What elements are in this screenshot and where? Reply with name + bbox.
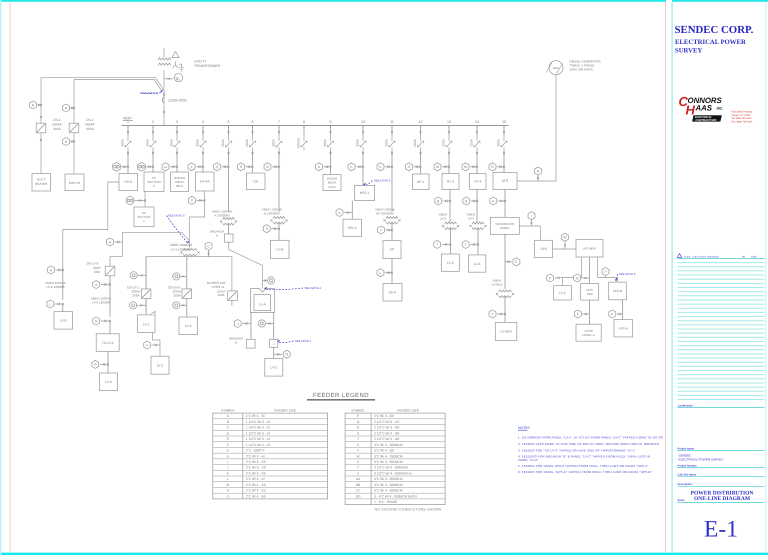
feeder symbol I — [528, 212, 535, 220]
svg-text:ATS: ATS — [502, 179, 509, 183]
transformer XMER KP — [386, 217, 398, 219]
feeder symbol Q position 5 — [214, 163, 221, 171]
page bottom cyan strip — [0, 553, 768, 555]
svg-text:S: S — [357, 431, 359, 435]
svg-text:2: 2 — [152, 120, 154, 124]
svg-text:NO GROUND CONDUCTORS SHOWN: NO GROUND CONDUCTORS SHOWN — [375, 508, 442, 512]
svg-text:60A: 60A — [94, 270, 101, 274]
svg-text:15: 15 — [502, 120, 506, 124]
svg-text:A: A — [216, 234, 218, 238]
svg-text:400A: 400A — [86, 127, 95, 131]
feeder symbol B on LV-3 wire — [435, 197, 442, 205]
breaker 200A position 11 — [391, 126, 393, 135]
svg-text:J: J — [237, 322, 239, 326]
svg-text:1 - 4"C - SPARE: 1 - 4"C - SPARE — [374, 500, 397, 504]
feeder symbol Z position 4 — [188, 163, 195, 171]
svg-text:400A: 400A — [121, 138, 125, 146]
svg-text:SEE NOTE 2: SEE NOTE 2 — [142, 91, 159, 95]
svg-text:PANEL: PANEL — [500, 226, 510, 230]
panel LV-9 — [100, 373, 118, 391]
svg-text:13: 13 — [447, 120, 451, 124]
svg-text:Z: Z — [190, 165, 192, 169]
feeder symbol L on LV-E wire — [47, 300, 54, 308]
disconnect DS-LV-1 — [141, 289, 151, 299]
feeder symbol R on generator wire — [535, 167, 542, 175]
svg-text:ELECTRICAL POWER SURVEY: ELECTRICAL POWER SURVEY — [679, 458, 724, 462]
wire position 10 drop — [362, 151, 364, 186]
svg-text:2"C W/ 4 - 2/0: 2"C W/ 4 - 2/0 — [246, 489, 266, 493]
svg-text:SPACE: SPACE — [297, 138, 301, 149]
breaker 300A position 9 — [330, 126, 332, 135]
svg-text:2"C W/ 3 - #6: 2"C W/ 3 - #6 — [246, 454, 265, 458]
svg-text:Z: Z — [357, 471, 359, 475]
svg-text:4"C W/ 3 - 500MCM: 4"C W/ 3 - 500MCM — [374, 483, 403, 487]
svg-text:3"C W/ 4 - 350MCM: 3"C W/ 4 - 350MCM — [374, 460, 403, 464]
svg-text:1. (X) 500MCM FROM PANEL "LV-4: 1. (X) 500MCM FROM PANEL "LV-4", AT JCT … — [518, 435, 663, 439]
svg-text:Scale:: Scale: — [678, 499, 686, 502]
svg-text:DS-1: DS-1 — [53, 118, 61, 122]
transformer XMER LV-4 — [472, 222, 484, 224]
svg-text:DD: DD — [356, 494, 361, 498]
wire feeder C stub — [208, 250, 210, 257]
svg-text:GEN: GEN — [553, 66, 559, 70]
feeder symbol S position 6 — [238, 163, 245, 171]
svg-text:HP-1: HP-1 — [417, 180, 425, 184]
svg-text:G: G — [94, 363, 97, 367]
svg-text:3"C W/ 4 - 3/0: 3"C W/ 4 - 3/0 — [374, 449, 394, 453]
svg-text:NOTES: NOTES — [518, 426, 530, 430]
feeder symbol B on LV-4 wire — [463, 197, 470, 205]
svg-text:T: T — [465, 243, 467, 247]
wire transformer to MCB — [163, 70, 165, 126]
svg-text:B: B — [227, 420, 229, 424]
svg-text:INC.: INC. — [717, 107, 724, 111]
svg-text:HP2-1: HP2-1 — [360, 191, 370, 195]
svg-text:3"C W/ 4 - 250MCM: 3"C W/ 4 - 250MCM — [374, 454, 403, 458]
utility meter — [174, 73, 182, 81]
feeder symbol GG position 1 — [113, 162, 121, 171]
disconnect DS-REFLOW OVEN 1 — [228, 291, 238, 301]
svg-text:200A: 200A — [385, 138, 389, 146]
wire position 7 drop — [278, 151, 280, 213]
svg-text:KP 120/208V: KP 120/208V — [376, 212, 394, 216]
disconnect switch DS-2 — [69, 123, 79, 133]
wire J to LV-C — [273, 347, 275, 358]
feeder symbol F on LV-X wire — [547, 274, 554, 282]
feeder symbol W position 13 — [434, 163, 441, 171]
svg-text:SEE NOTE 1: SEE NOTE 1 — [295, 339, 312, 343]
breaker B box — [246, 339, 255, 348]
svg-text:CONTRACTORS: CONTRACTORS — [696, 119, 717, 122]
svg-text:FEEDER LEGEND: FEEDER LEGEND — [313, 392, 369, 399]
svg-text:2"C W/ 3 - 2/0: 2"C W/ 3 - 2/0 — [246, 471, 266, 475]
svg-text:7: 7 — [278, 120, 280, 124]
feeder symbol F on panel A wire — [574, 310, 581, 318]
svg-text:6. FEEDER FOR PANEL "UPS-A" TA: 6. FEEDER FOR PANEL "UPS-A" TAPPED FROM … — [518, 470, 652, 474]
svg-text:FEEDER SIZE: FEEDER SIZE — [397, 409, 419, 413]
svg-text:Q: Q — [216, 165, 219, 169]
svg-text:O: O — [191, 199, 194, 203]
svg-text:DS-2: DS-2 — [86, 118, 94, 122]
svg-text:4"C W/ 4 - 500MCM: 4"C W/ 4 - 500MCM — [374, 489, 403, 493]
svg-text:ELECTRICAL POWER: ELECTRICAL POWER — [675, 39, 746, 46]
panel LV-A with feed-thru notch — [251, 289, 275, 313]
svg-text:W: W — [357, 454, 360, 458]
svg-text:Tel: (969) 545-4444: Tel: (969) 545-4444 — [732, 117, 753, 120]
svg-text:LV-X: LV-X — [559, 291, 567, 295]
svg-text:1 1/4"C W/ 4 - #2: 1 1/4"C W/ 4 - #2 — [246, 426, 271, 430]
svg-text:LV-1: LV-1 — [143, 323, 150, 327]
svg-text:2 1/2"C W/ 4 - 3/0: 2 1/2"C W/ 4 - 3/0 — [374, 431, 399, 435]
svg-text:SEE NOTE 6: SEE NOTE 6 — [619, 272, 636, 276]
panel HV-D — [119, 174, 138, 191]
disconnect switch DS-1 — [36, 123, 46, 133]
feeder symbol O below HV-4A — [189, 196, 196, 204]
svg-text:ONE-LINE DIAGRAM: ONE-LINE DIAGRAM — [694, 496, 751, 502]
svg-text:HEATER: HEATER — [35, 182, 48, 186]
svg-text:200A: 200A — [245, 138, 249, 146]
svg-text:1 1/2"C W/ 4 - #2: 1 1/2"C W/ 4 - #2 — [246, 443, 271, 447]
svg-text:T: T — [491, 312, 493, 316]
svg-text:AA: AA — [164, 166, 168, 169]
page top cyan strip — [0, 0, 666, 2]
panel HV-4A — [196, 172, 215, 191]
svg-text:O: O — [408, 165, 411, 169]
feeder symbol J — [234, 320, 241, 328]
breaker 225A position 13 — [448, 126, 450, 135]
feeder symbol R on DS-1 — [30, 101, 37, 109]
wire KP to KP-A — [391, 259, 393, 284]
feeder symbol G — [92, 360, 99, 368]
svg-text:200A: 200A — [132, 293, 139, 297]
breaker 300A position 10 — [362, 126, 364, 135]
svg-text:TS-LV-9: TS-LV-9 — [102, 341, 114, 345]
svg-text:2"C W/ 4 - 1/0: 2"C W/ 4 - 1/0 — [246, 483, 266, 487]
svg-text:8: 8 — [303, 120, 305, 124]
wire H tap to XMER LV-1 primary — [122, 232, 189, 240]
svg-text:100A: 100A — [272, 138, 276, 146]
wire LV-A to panel J — [273, 313, 275, 340]
svg-text:2 1/2"C W/ 4 - 4/0: 2 1/2"C W/ 4 - 4/0 — [374, 437, 399, 441]
disconnect DS-LV-6 — [182, 289, 192, 299]
wire ATS to generator panel — [504, 190, 506, 218]
svg-text:2 1/2"C W/ 3 - 1/0: 2 1/2"C W/ 3 - 1/0 — [374, 420, 399, 424]
transformer XMER LV-GEN — [499, 290, 512, 292]
feeder symbol L on KP-A wire — [377, 269, 384, 277]
diesel generator — [549, 61, 563, 75]
svg-text:E-1: E-1 — [704, 517, 738, 543]
panel LV-C — [265, 358, 283, 376]
svg-text:2"C W/ 3 - 1/0: 2"C W/ 3 - 1/0 — [246, 466, 266, 470]
panel LV-X — [554, 286, 572, 300]
svg-text:3 1/2"C W/ 4 - 500MCM: 3 1/2"C W/ 4 - 500MCM — [374, 466, 408, 470]
svg-text:9: 9 — [330, 120, 332, 124]
svg-text:UPS: UPS — [540, 247, 548, 251]
svg-text:11: 11 — [390, 120, 394, 124]
title block right cyan line — [765, 2, 766, 553]
feeder symbol on DS-2 upper — [63, 104, 70, 112]
feeder symbol K position 11 — [377, 163, 384, 171]
wire HV-D tap to LV-E — [63, 182, 119, 266]
wire UPS-MDP to UPS-B — [598, 257, 618, 282]
wire UPS-MDP to LV-X — [563, 257, 582, 286]
svg-text:T: T — [357, 437, 359, 441]
svg-text:UPS-A: UPS-A — [619, 326, 629, 330]
svg-text:LV-4: LV-4 — [474, 262, 481, 266]
panel BOILER MECH RM A — [171, 172, 189, 192]
svg-text:400A: 400A — [146, 138, 150, 146]
svg-text:L: L — [380, 271, 382, 275]
panel UPS-MDP — [576, 240, 603, 257]
svg-text:300A: 300A — [356, 138, 360, 146]
wye symbol — [173, 62, 179, 69]
svg-text:I: I — [531, 214, 532, 218]
svg-text:150A: 150A — [221, 138, 225, 146]
wire position 15 drop — [503, 151, 505, 173]
disconnect DS-1 circuit wire — [40, 78, 42, 174]
panel UPS — [535, 240, 553, 257]
wire HP2-1 to HP2-2 — [351, 201, 353, 220]
transformer XMER A — [223, 218, 235, 220]
svg-text:2"C W/ 4 - 4/0: 2"C W/ 4 - 4/0 — [374, 414, 394, 418]
panel LV-3 — [441, 254, 459, 271]
feeder symbol on DS-LV-6 upper — [173, 273, 180, 280]
wire UPS-MDP to UPS/PBX — [589, 257, 591, 284]
wire LV-A to breaker B — [250, 313, 252, 340]
svg-text:1 1/2"C W/ 3 - #2: 1 1/2"C W/ 3 - #2 — [246, 431, 271, 435]
wire position 1 drop — [127, 151, 129, 174]
wire LV-1 to LV-2 — [153, 332, 161, 356]
panel KP — [383, 241, 401, 259]
feeder symbol T on LV-GEN wire — [489, 310, 496, 318]
utility transformer primary wire — [163, 48, 165, 57]
wire bus to DS-LV-1 — [145, 257, 147, 315]
revision table header — [677, 254, 681, 258]
svg-text:LV-A: LV-A — [259, 303, 267, 307]
title block left cyan line — [672, 2, 673, 553]
bus XMER LV-1 secondary — [146, 257, 232, 311]
svg-text:LV-3: LV-3 — [447, 261, 454, 265]
feeder symbol GG position 2 — [138, 162, 146, 171]
feeder symbol S on LV-B wire — [263, 225, 270, 233]
right pink border line — [665, 2, 666, 552]
feeder symbol N on LV-C wire — [283, 350, 290, 358]
svg-text:RM A: RM A — [176, 184, 183, 188]
service line from DS circuits to transformer — [41, 78, 163, 90]
wire UPS to UPS-MDP — [553, 248, 576, 250]
feeder symbol on DS-LV-6 lower — [173, 302, 180, 309]
svg-text:4: 4 — [202, 120, 204, 124]
svg-text:208V, 694 AMPS: 208V, 694 AMPS — [570, 68, 593, 72]
svg-text:CC: CC — [356, 489, 361, 493]
panel GENERATOR PANEL — [490, 217, 519, 234]
feeder symbol O position 12 — [406, 163, 413, 171]
wire UPS/PBX to UPSB PANEL A — [589, 300, 591, 324]
svg-text:TRANSFORMER: TRANSFORMER — [194, 64, 221, 68]
svg-text:6: 6 — [252, 120, 254, 124]
svg-text:B: B — [235, 341, 237, 345]
svg-text:UPS-MDP: UPS-MDP — [583, 247, 597, 251]
panel UPSB PANEL A — [576, 324, 601, 341]
left cyan edge — [0, 0, 1, 555]
transformer TS-LV-9 — [96, 334, 119, 352]
svg-text:PANEL A: PANEL A — [583, 333, 595, 337]
feeder symbol E — [513, 258, 520, 266]
wire HV-4A to XMER LV-1 primary — [189, 191, 204, 248]
feeder symbol P on UPS-A wire — [609, 310, 616, 318]
svg-text:LV-C: LV-C — [270, 365, 278, 369]
feeder symbol N on UPS/PBX wire — [574, 274, 581, 282]
svg-text:UPS-B: UPS-B — [613, 289, 622, 293]
svg-text:M: M — [226, 483, 229, 487]
panel UPS-A — [614, 320, 633, 337]
panel HP SECTION 2 — [144, 172, 164, 192]
svg-text:LV-GEN: LV-GEN — [492, 283, 503, 287]
feeder symbol K position 10 — [348, 163, 355, 171]
feeder symbol A on LV-9 wire — [109, 276, 111, 317]
svg-text:1200A MCB: 1200A MCB — [168, 99, 187, 103]
panel KP-A — [383, 284, 402, 302]
delta symbol — [172, 52, 179, 58]
svg-text:F: F — [577, 312, 579, 316]
svg-text:Date & Issue Description: Date & Issue Description — [693, 255, 720, 258]
svg-text:L: L — [49, 302, 51, 306]
transformer XMER LV-1 — [183, 249, 197, 251]
panel LV-2 — [151, 356, 169, 374]
wire position 9 drop — [330, 151, 332, 175]
svg-text:2"C W/ 3 - 1/0: 2"C W/ 3 - 1/0 — [246, 460, 266, 464]
svg-text:PBX: PBX — [587, 292, 593, 296]
svg-text:LV-3: LV-3 — [440, 217, 446, 221]
transformer XMER LV-3 — [445, 222, 457, 224]
svg-text:Description:: Description: — [678, 483, 693, 486]
feeder symbol H — [107, 238, 114, 246]
wire bus to DS-LV-6 — [186, 257, 188, 317]
svg-text:HV-4A: HV-4A — [200, 180, 210, 184]
svg-text:T: T — [436, 243, 438, 247]
wire position 2 drop — [152, 151, 154, 173]
svg-text:Ontario, NY 14519: Ontario, NY 14519 — [732, 114, 752, 117]
svg-text:B 120/208V: B 120/208V — [264, 212, 280, 216]
wire TS-LV-9 to LV-9 — [107, 351, 109, 373]
svg-text:SYMBOL: SYMBOL — [221, 409, 235, 413]
feeder symbol CC on J wire — [258, 320, 265, 327]
bus MDP — [122, 125, 509, 127]
svg-text:225A: 225A — [470, 138, 474, 146]
panel LV-6 — [179, 317, 198, 335]
svg-text:LV-GEN: LV-GEN — [500, 330, 512, 334]
svg-text:AAS: AAS — [695, 104, 713, 113]
ground symbol — [179, 64, 184, 71]
feeder symbol X — [336, 209, 343, 217]
svg-text:Chkd: Chkd — [751, 255, 757, 258]
svg-text:3. FEEDER FOR "DS-LV-9" TAPPED: 3. FEEDER FOR "DS-LV-9" TAPPED ON LINE S… — [518, 448, 636, 452]
wire breaker A to LV-A — [229, 242, 263, 288]
svg-text:5. FEEDER FOR PANEL HP2-2 TAPP: 5. FEEDER FOR PANEL HP2-2 TAPPED FROM FE… — [518, 464, 648, 468]
wire position 3 drop — [176, 151, 178, 173]
svg-text:300A: 300A — [323, 138, 327, 146]
feeder symbol R position 15 — [489, 163, 496, 171]
svg-text:2"C W/ 4 - #2: 2"C W/ 4 - #2 — [246, 477, 265, 481]
breaker 225A position 14 — [476, 126, 478, 135]
panel DH — [247, 173, 266, 190]
breaker 300A position 15 — [503, 126, 505, 135]
svg-text:2. FEEDER TAPS MADE TO LINE SI: 2. FEEDER TAPS MADE TO LINE SIDE OF BUS … — [518, 442, 660, 446]
svg-text:3: 3 — [176, 120, 178, 124]
svg-text:LV-B: LV-B — [276, 248, 284, 252]
svg-text:HV-3: HV-3 — [447, 180, 454, 184]
feeder symbol R below ATS — [490, 197, 497, 205]
panel BOILER MECH RM B — [323, 175, 341, 191]
svg-text:225A: 225A — [442, 138, 446, 146]
svg-text:6145 Dean Parkway: 6145 Dean Parkway — [732, 111, 754, 114]
wire HP SECTION 2 to HP SECTION 1 — [144, 192, 146, 208]
svg-text:1: 1 — [127, 120, 129, 124]
svg-text:2"C - EMPTY: 2"C - EMPTY — [246, 449, 266, 453]
svg-text:SEE NOTE 5: SEE NOTE 5 — [374, 179, 391, 183]
panel UPS-B — [609, 282, 627, 300]
panel HP-1 — [413, 174, 430, 190]
svg-text:F: F — [227, 443, 229, 447]
revision ruled lines — [678, 262, 765, 264]
wire generator to ATS — [517, 75, 556, 181]
svg-text:2"C W/ 4 - 3/0: 2"C W/ 4 - 3/0 — [246, 494, 266, 498]
wire position 14 drop — [476, 151, 478, 174]
svg-text:FEEDER SIZE: FEEDER SIZE — [274, 409, 296, 413]
panel ATS — [493, 173, 517, 190]
svg-text:BB: BB — [356, 483, 360, 487]
panel HP2-1 — [355, 186, 375, 201]
svg-text:P: P — [357, 414, 359, 418]
svg-text:1 1/2"C W/ 3 - #2: 1 1/2"C W/ 3 - #2 — [246, 437, 271, 441]
svg-text:LV-9 120/208: LV-9 120/208 — [92, 301, 110, 305]
feeder symbol Y — [378, 226, 385, 234]
panel LV-1 — [138, 315, 155, 333]
svg-text:LV-E: LV-E — [60, 319, 68, 323]
feeder symbol W position 14 — [462, 163, 469, 171]
feeder symbol on DS-2 lower — [63, 138, 70, 146]
svg-text:3 - 4"C W/ 4 - 500MCM EACH: 3 - 4"C W/ 4 - 500MCM EACH — [374, 494, 417, 498]
svg-text:300A: 300A — [497, 138, 501, 146]
svg-text:400A: 400A — [53, 127, 62, 131]
panel LV-B — [271, 240, 290, 258]
panel LV-GEN — [495, 322, 517, 340]
feeder symbol on HP SECTION 1 wire — [126, 196, 134, 205]
breaker A box — [225, 234, 234, 242]
svg-text:LV-2: LV-2 — [157, 363, 164, 367]
disconnect DS-2 circuit wire — [73, 80, 75, 175]
wire position 5 drop — [228, 151, 230, 213]
svg-text:I: I — [227, 460, 228, 464]
svg-text:L: L — [227, 477, 229, 481]
svg-text:SEE NOTE 4: SEE NOTE 4 — [305, 286, 322, 290]
wire position 11 drop — [391, 151, 393, 213]
svg-text:HP2-2: HP2-2 — [348, 226, 357, 230]
svg-text:3"C W/ 3 - 350MCM: 3"C W/ 3 - 350MCM — [374, 443, 403, 447]
panel LV-E — [54, 312, 73, 330]
wire position 13 drop — [448, 151, 450, 174]
feeder symbol on DS-LV-1 upper — [130, 272, 137, 279]
left pink border line — [10, 2, 11, 552]
breaker 300A position 3 — [176, 126, 178, 135]
breaker 400A position 2 — [152, 126, 154, 135]
svg-text:12: 12 — [419, 120, 423, 124]
svg-text:LV-6: LV-6 — [185, 324, 192, 328]
feeder symbol A on LV-E wire — [48, 266, 55, 274]
breaker 200A position 12 — [420, 126, 422, 135]
svg-text:200A: 200A — [413, 138, 417, 146]
feeder symbol CC on LV-A wire — [267, 277, 274, 284]
